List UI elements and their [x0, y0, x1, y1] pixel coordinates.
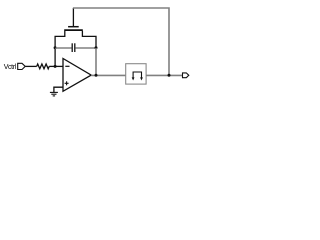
op-amp minus sign [65, 65, 69, 67]
op-amp A1 [63, 59, 91, 92]
ground [50, 92, 58, 96]
transistor M1 channel bar [64, 29, 83, 31]
wire gate across top to output node (gray) [73, 8, 169, 75]
node output junction [168, 74, 171, 77]
input terminal Vctrl [18, 63, 26, 69]
wire rail left to capacitor (gray) [55, 47, 72, 49]
wire gate vertical [72, 8, 74, 26]
transistor M1 source/drain leads [55, 31, 65, 48]
wire non-inverting input to ground [54, 87, 63, 92]
pulse symbol inside U1 [133, 72, 141, 78]
op-amp plus sign [65, 81, 69, 85]
wire op-amp vertical right branch (gray) [95, 48, 97, 75]
wire op-amp output to pulse generator (gray) [91, 74, 126, 76]
resistor R [37, 64, 50, 69]
wire node up to feedback rail [54, 48, 56, 66]
svg-text:Vctrl: Vctrl [4, 64, 17, 71]
node op-amp output [95, 74, 98, 77]
wire pulse generator to output terminal (gray) [146, 74, 182, 76]
transistor M1 gate bar [68, 26, 79, 28]
node at inverting input [54, 65, 57, 68]
node feedback rail left [54, 46, 57, 49]
node feedback rail right [95, 46, 98, 49]
output terminal [183, 73, 189, 78]
wire terminal to resistor [25, 65, 37, 67]
pulse generator U1 box [126, 64, 146, 84]
wire resistor to op-amp inverting input [49, 65, 63, 67]
wire capacitor to rail right (gray) [75, 47, 96, 49]
capacitor C [72, 43, 75, 52]
